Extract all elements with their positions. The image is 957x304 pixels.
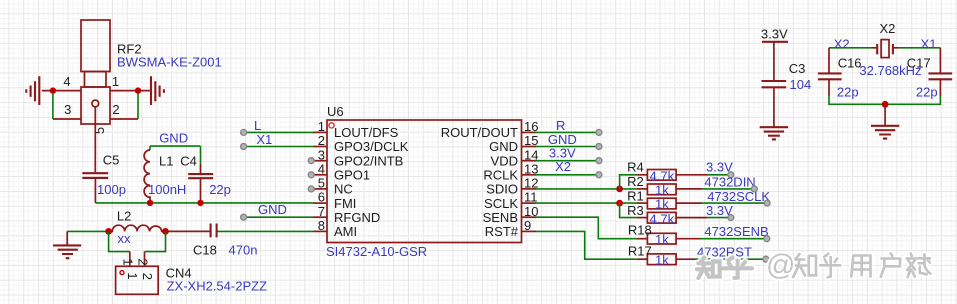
U6 left pin names	[334, 125, 409, 239]
svg-text:3: 3	[64, 102, 71, 117]
no-connect dot pin 14	[596, 158, 602, 164]
R2 right stub	[676, 188, 702, 190]
svg-text:1k: 1k	[655, 252, 669, 267]
wire pin 14 to net 3.3V	[536, 160, 599, 162]
RF2 pin 5 wire down to C5	[94, 107, 96, 172]
wire crystal left to C16	[829, 47, 872, 49]
wire junction down to R3	[620, 203, 637, 218]
svg-text:104: 104	[790, 77, 812, 92]
svg-text:ROUT/DOUT: ROUT/DOUT	[441, 125, 518, 140]
junction C4 bottom	[197, 200, 203, 206]
no-connect dot net L	[241, 129, 247, 135]
svg-text:R17: R17	[628, 244, 652, 259]
svg-text:1k: 1k	[655, 232, 669, 247]
svg-text:2: 2	[136, 258, 151, 265]
svg-text:GPO3/DCLK: GPO3/DCLK	[334, 139, 409, 154]
R2 left stub	[637, 188, 648, 190]
svg-text:LOUT/DFS: LOUT/DFS	[334, 125, 399, 140]
svg-text:2: 2	[112, 102, 119, 117]
svg-text:NC: NC	[334, 182, 353, 197]
svg-text:100nH: 100nH	[148, 182, 186, 197]
svg-text:RFGND: RFGND	[334, 210, 380, 225]
watermark strokes	[697, 258, 752, 279]
no-connect dot pin 3	[308, 158, 314, 164]
R17 right stub	[676, 258, 694, 260]
U6 pin1 indicator circle	[329, 123, 334, 128]
svg-text:22p: 22p	[209, 182, 231, 197]
U6 pin 8 stub	[313, 230, 327, 232]
RF2 pin 4 wire	[42, 90, 81, 92]
svg-text:L: L	[254, 118, 261, 133]
svg-text:SI4732-A10-GSR: SI4732-A10-GSR	[326, 244, 427, 259]
wire R4 to 3.3V	[707, 174, 731, 176]
junction L2 left	[105, 228, 112, 235]
wire R2 to 4732DIN	[702, 188, 754, 190]
svg-text:GND: GND	[258, 202, 287, 217]
RF2 pin 3 wire	[53, 118, 81, 120]
wire pin 12 SDIO to R2	[536, 188, 637, 190]
op-amp U6 SI4732 body	[327, 120, 522, 243]
wire R1 to 4732SCLK	[702, 202, 767, 204]
svg-text:X2: X2	[834, 37, 850, 52]
svg-text:RST#: RST#	[485, 224, 519, 239]
no-connect dot R3	[728, 215, 734, 221]
svg-text:4732SENB: 4732SENB	[704, 224, 768, 239]
wire 3.3V to C3	[773, 42, 775, 81]
no-connect dot pin 13	[596, 172, 602, 178]
CN4 pin1 indicator circle	[120, 271, 124, 275]
wire bus to U6 pin 6	[95, 202, 313, 204]
U6 pin 6 stub	[313, 202, 327, 204]
svg-text:R: R	[556, 118, 565, 133]
svg-text:ZX-XH2.54-2PZZ: ZX-XH2.54-2PZZ	[167, 279, 267, 294]
wire R18 to 4732SENB	[700, 238, 767, 240]
resistor R4	[647, 170, 676, 181]
wire ground to L2	[67, 230, 108, 232]
svg-text:C18: C18	[193, 243, 217, 258]
svg-text:SCLK: SCLK	[484, 196, 518, 211]
capacitor C16	[818, 73, 842, 96]
svg-text:SENB: SENB	[483, 210, 518, 225]
no-connect dot R4	[728, 172, 734, 178]
RF2 pin 2 wire	[110, 118, 138, 120]
capacitor C18	[211, 224, 217, 238]
svg-text:X1: X1	[256, 132, 272, 147]
U6 pin 1 stub	[313, 131, 327, 133]
wire pin 9 RST to R17	[536, 231, 637, 259]
R18 right stub	[676, 238, 700, 240]
junction SCLK	[616, 200, 623, 207]
node GND top wire L1-C4	[150, 145, 201, 147]
R1 right stub	[676, 202, 702, 204]
no-connect dot R18	[764, 236, 770, 242]
svg-text:BWSMA-KE-Z001: BWSMA-KE-Z001	[117, 55, 222, 70]
svg-text:FMI: FMI	[334, 196, 356, 211]
earth ground bottom left	[53, 231, 81, 258]
svg-text:X1: X1	[921, 37, 937, 52]
svg-text:4732SCLK: 4732SCLK	[707, 189, 770, 204]
wire pin 2 to net X1	[244, 146, 313, 148]
svg-text:GND: GND	[159, 131, 188, 146]
svg-text:R2: R2	[627, 174, 644, 189]
svg-text:C4: C4	[180, 153, 197, 168]
U6 pin 5 stub	[311, 188, 327, 190]
wire pin 10 SENB to R18	[536, 217, 637, 239]
svg-text:R1: R1	[627, 189, 644, 204]
U6 left pin numbers 1-8	[318, 119, 325, 233]
U6 pin 13 stub	[522, 174, 537, 176]
R17 left stub	[637, 258, 648, 260]
svg-text:4: 4	[63, 74, 70, 89]
svg-text:@: @	[766, 250, 795, 282]
svg-text:2: 2	[140, 273, 155, 280]
svg-text:X2: X2	[880, 21, 896, 36]
svg-text:SDIO: SDIO	[486, 182, 518, 197]
ground below C3	[760, 127, 788, 139]
U6 pin 16 stub	[522, 131, 537, 133]
watermark halo	[697, 258, 752, 279]
R4 right stub	[676, 174, 707, 176]
crystal X2	[872, 40, 899, 58]
svg-text:U6: U6	[327, 104, 344, 119]
wire pin4 to pin3	[52, 91, 54, 119]
svg-text:R3: R3	[627, 203, 644, 218]
wire pin 15 to net GND	[536, 146, 599, 148]
wire crystal right to C17	[899, 47, 941, 49]
capacitor C5	[82, 173, 108, 203]
svg-text:1k: 1k	[655, 197, 669, 212]
resistor R1	[647, 198, 676, 209]
svg-text:R18: R18	[628, 223, 652, 238]
R18 left stub	[637, 238, 648, 240]
svg-text:GND: GND	[489, 139, 518, 154]
capacitor C4	[188, 146, 213, 203]
no-connect dot pin 15	[596, 144, 602, 150]
junction right	[135, 87, 141, 93]
wire pin1 to pin2	[137, 91, 139, 119]
wire R17 to 4732RST	[695, 258, 765, 260]
junction crystal ground	[882, 101, 889, 108]
U6 pin 14 stub	[522, 160, 537, 162]
connector CN4 body	[116, 266, 159, 294]
wire pin 16 to net R	[536, 131, 599, 133]
svg-text:VDD: VDD	[491, 153, 518, 168]
no-connect dot pin 4	[308, 172, 314, 178]
wire junction up to R4	[620, 175, 637, 189]
no-connect dot pin 5	[308, 186, 314, 192]
R4 left stub	[637, 174, 648, 176]
wire L2 left to CN4 pin 1	[109, 231, 130, 251]
inductor L2	[109, 225, 166, 231]
no-connect dot R2	[751, 186, 757, 192]
svg-text:1k: 1k	[655, 183, 669, 198]
resistor R18	[647, 233, 676, 244]
svg-text:GPO1: GPO1	[334, 168, 370, 183]
svg-text:RCLK: RCLK	[483, 168, 518, 183]
U6 pin 3 stub	[311, 160, 327, 162]
resistor R17	[647, 254, 676, 265]
svg-text:C16: C16	[838, 55, 862, 70]
resistor R2	[647, 184, 676, 195]
svg-text:L2: L2	[117, 209, 131, 224]
svg-text:C3: C3	[789, 61, 806, 76]
svg-text:1: 1	[121, 258, 136, 265]
inductor L1	[144, 146, 150, 203]
svg-text:6: 6	[318, 190, 325, 205]
wire pin 11 SCLK to R1	[536, 202, 637, 204]
U6 right pin numbers 16-9	[524, 119, 538, 233]
U6 pin 10 stub	[522, 216, 537, 218]
ground right of RF2	[151, 76, 164, 105]
U6 pin 7 stub	[313, 216, 327, 218]
wire C16 C17 bottom bus	[829, 96, 940, 104]
wire C18 to U6 pin 8	[218, 230, 314, 232]
svg-text:5: 5	[92, 127, 107, 134]
CN4 pin 1 stub	[129, 252, 131, 267]
svg-text:C17: C17	[907, 55, 931, 70]
svg-text:4.7k: 4.7k	[650, 211, 675, 226]
no-connect dot R1	[764, 200, 770, 206]
RF2 pin 1 wire	[110, 90, 150, 92]
svg-text:1: 1	[125, 272, 140, 279]
R3 right stub	[676, 217, 707, 219]
junction SDIO	[616, 186, 623, 193]
R3 left stub	[637, 217, 648, 219]
wire R3 to 3.3V	[707, 217, 731, 219]
U6 right pin names	[441, 125, 519, 239]
C17 top lead	[939, 48, 941, 74]
no-connect dot net X1	[241, 144, 247, 150]
svg-text:R4: R4	[627, 160, 644, 175]
junction left	[50, 87, 56, 93]
CN4 pin 2 stub	[144, 252, 146, 267]
wire L2 right to CN4 pin 2	[145, 231, 166, 251]
U6 pin 15 stub	[522, 146, 537, 148]
svg-text:AMI: AMI	[334, 224, 357, 239]
svg-text:C5: C5	[103, 153, 120, 168]
U6 pin 4 stub	[311, 174, 327, 176]
svg-text:xx: xx	[118, 231, 132, 246]
U6 pin 12 stub	[522, 188, 537, 190]
svg-text:GPO2/INTB: GPO2/INTB	[334, 153, 403, 168]
junction L1 bottom	[147, 200, 153, 206]
no-connect dot pin 7	[241, 214, 247, 220]
wire pin 13 to net X2	[536, 174, 599, 176]
U6 pin 2 stub	[313, 146, 327, 148]
U6 pin 11 stub	[522, 202, 537, 204]
no-connect dot net R	[596, 129, 602, 135]
svg-text:3.3V: 3.3V	[761, 27, 788, 42]
wire pin 7 to net GND	[244, 216, 313, 218]
svg-text:8: 8	[318, 218, 325, 233]
svg-text:22p: 22p	[837, 85, 859, 100]
no-connect dot R17	[763, 256, 769, 262]
capacitor C17	[929, 73, 953, 96]
svg-text:4.7k: 4.7k	[650, 168, 675, 183]
capacitor C3	[762, 81, 787, 127]
junction L2 right	[162, 228, 169, 235]
svg-text:22p: 22p	[916, 85, 938, 100]
svg-text:100p: 100p	[97, 182, 126, 197]
resistor R3	[647, 212, 676, 223]
svg-text:L1: L1	[159, 153, 173, 168]
connector RF2 body	[81, 20, 110, 124]
wire L2 to C18	[166, 230, 210, 232]
svg-text:X2: X2	[555, 159, 571, 174]
ground below crystal	[871, 104, 899, 138]
power flag 3.3V for C3	[761, 27, 788, 42]
svg-text:470n: 470n	[229, 243, 258, 258]
C16 top lead	[828, 48, 830, 74]
R1 left stub	[637, 202, 648, 204]
svg-text:1: 1	[112, 74, 119, 89]
ground left of RF2	[26, 76, 39, 105]
wire pin 1 to net L	[244, 131, 313, 133]
svg-text:4732DIN: 4732DIN	[704, 175, 755, 190]
U6 pin 9 stub	[522, 230, 537, 232]
